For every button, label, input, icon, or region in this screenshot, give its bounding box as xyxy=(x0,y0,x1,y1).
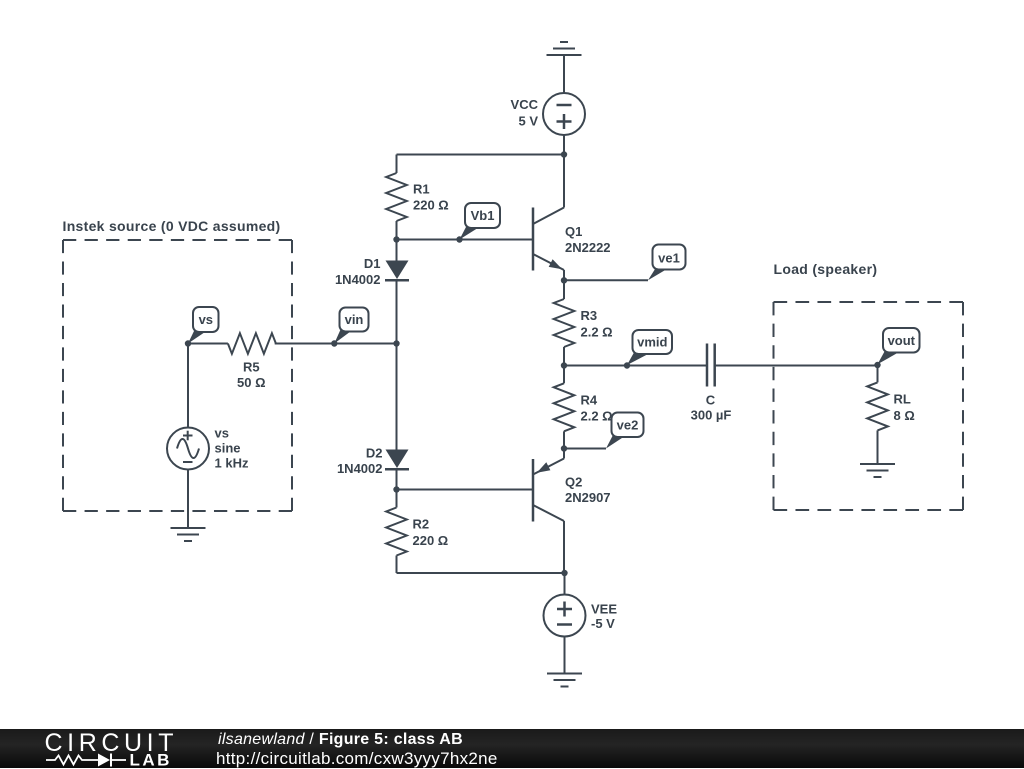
svg-text:300 µF: 300 µF xyxy=(691,407,732,422)
resistor R4 xyxy=(554,383,575,431)
svg-text:Instek source (0 VDC assumed): Instek source (0 VDC assumed) xyxy=(63,218,281,234)
svg-text:R5: R5 xyxy=(243,359,260,374)
junction D2/R2 xyxy=(393,486,399,492)
svg-text:vs: vs xyxy=(199,312,213,327)
svg-text:50 Ω: 50 Ω xyxy=(237,375,266,390)
wire ve2 xyxy=(564,448,606,450)
svg-text:1N4002: 1N4002 xyxy=(335,272,381,287)
wire Q2 base xyxy=(397,489,534,491)
capacitor C xyxy=(707,344,715,387)
svg-text:220 Ω: 220 Ω xyxy=(413,198,449,213)
svg-text:C: C xyxy=(706,393,716,408)
label R2 220 xyxy=(413,517,449,549)
wire node to VEE xyxy=(564,573,566,595)
svg-text:Q2: Q2 xyxy=(565,475,582,490)
diode D1 xyxy=(385,261,409,281)
wire Q2 collector xyxy=(563,521,565,573)
svg-text:RL: RL xyxy=(894,392,911,407)
label Q2 2N2907 xyxy=(565,475,611,506)
svg-text:220 Ω: 220 Ω xyxy=(413,533,449,548)
wire R2 to bottom rail xyxy=(396,556,398,574)
svg-text:-5 V: -5 V xyxy=(591,616,615,631)
node flag ve2 xyxy=(606,413,644,449)
node flag vout xyxy=(878,328,920,364)
svg-text:2N2907: 2N2907 xyxy=(565,490,611,505)
svg-text:vmid: vmid xyxy=(637,335,667,350)
svg-text:ve1: ve1 xyxy=(658,251,680,266)
svg-text:Q1: Q1 xyxy=(565,224,582,239)
svg-text:R4: R4 xyxy=(581,393,598,408)
svg-text:Vb1: Vb1 xyxy=(471,208,495,223)
wire ground to VCC xyxy=(563,55,565,94)
label D1 1N4002 xyxy=(335,256,381,287)
wire R4 top xyxy=(563,366,565,384)
label R3 2.2 xyxy=(581,308,613,339)
wire RL to ground xyxy=(877,430,879,464)
wire R5 to vin xyxy=(275,343,397,345)
footer title xyxy=(218,731,463,749)
label R4 2.2 xyxy=(581,393,613,424)
wire R4 to ve2 node xyxy=(563,431,565,448)
label C 300uF xyxy=(691,393,732,423)
wire Q1 collector xyxy=(563,155,565,208)
resistor R1 xyxy=(386,173,407,221)
wire R3 to vmid xyxy=(563,347,565,366)
wire node to R3 xyxy=(563,280,565,299)
voltage source vs sine xyxy=(167,428,209,470)
svg-text:LAB: LAB xyxy=(130,751,172,769)
svg-text:2N2222: 2N2222 xyxy=(565,240,611,255)
footer url xyxy=(216,749,498,769)
transistor Q1 2N2222 xyxy=(533,208,564,271)
svg-text:VCC: VCC xyxy=(511,97,539,112)
label R1 220 xyxy=(413,182,449,213)
label VEE -5V xyxy=(591,601,617,631)
wire vs to R5 xyxy=(188,343,228,345)
junction bottom node xyxy=(561,570,567,576)
wire vs source top xyxy=(187,344,189,428)
svg-text:1 kHz: 1 kHz xyxy=(215,456,249,471)
node flag Vb1 xyxy=(456,203,500,243)
wire top horizontal xyxy=(397,154,565,156)
label vs sine 1kHz xyxy=(215,426,249,471)
svg-text:2.2 Ω: 2.2 Ω xyxy=(581,409,613,424)
svg-text:R1: R1 xyxy=(413,182,430,197)
wire node to D1 xyxy=(396,240,398,261)
label VCC 5V xyxy=(511,97,539,129)
wire Q1 base xyxy=(397,239,534,241)
resistor R2 xyxy=(386,508,407,556)
svg-text:D2: D2 xyxy=(366,446,383,461)
label D2 1N4002 xyxy=(337,446,383,477)
wire ve1 xyxy=(564,279,648,281)
svg-text:vin: vin xyxy=(345,312,364,327)
CircuitLab logo xyxy=(0,728,220,768)
svg-text:sine: sine xyxy=(215,441,241,456)
ground vs xyxy=(171,528,206,541)
wire vin node to D2 xyxy=(396,344,398,450)
svg-text:R2: R2 xyxy=(413,517,430,532)
svg-text:1N4002: 1N4002 xyxy=(337,461,383,476)
dashed box Instek source xyxy=(63,240,292,511)
junction vin rail xyxy=(393,340,399,346)
label RL 8 xyxy=(894,392,915,424)
junction ve1 xyxy=(561,277,567,283)
wire bottom horizontal xyxy=(397,572,565,574)
wire node to R2 xyxy=(396,490,398,508)
svg-text:D1: D1 xyxy=(364,256,381,271)
diode D2 xyxy=(385,450,409,470)
svg-text:Load (speaker): Load (speaker) xyxy=(774,261,878,277)
svg-text:ve2: ve2 xyxy=(617,418,639,433)
resistor RL xyxy=(867,382,888,430)
wire Q2 emitter xyxy=(563,449,565,459)
wire vout to RL xyxy=(877,365,879,382)
resistor R5 xyxy=(228,333,276,354)
junction top node xyxy=(561,151,567,157)
wire D1 to vin node xyxy=(396,280,398,343)
footer bar xyxy=(0,729,1024,768)
node flag vin xyxy=(331,308,368,347)
svg-text:R3: R3 xyxy=(581,308,598,323)
wire Q1 emitter xyxy=(563,270,565,280)
svg-text:vs: vs xyxy=(215,426,229,441)
node flag vs xyxy=(185,307,219,347)
svg-text:VEE: VEE xyxy=(591,601,617,616)
node flag vmid xyxy=(624,330,672,369)
wire VEE to ground xyxy=(564,637,566,674)
ground top (VCC) xyxy=(547,42,582,55)
ground RL xyxy=(860,464,895,477)
wire VCC to node xyxy=(563,135,565,155)
dashed box Load speaker xyxy=(774,302,964,510)
wire D2 to node xyxy=(396,469,398,489)
svg-text:5 V: 5 V xyxy=(518,114,538,129)
wire capacitor to vout xyxy=(715,365,878,367)
voltage source VEE -5V xyxy=(544,595,586,637)
transistor Q2 2N2907 xyxy=(533,459,564,522)
resistor R3 xyxy=(554,299,575,347)
wire R1 to node Vb1 xyxy=(396,221,398,240)
junction vout xyxy=(874,362,880,368)
label Q1 2N2222 xyxy=(565,224,611,255)
node flag ve1 xyxy=(648,245,686,281)
junction vmid xyxy=(561,362,567,368)
wire vs source to ground xyxy=(187,470,189,529)
ground VEE xyxy=(547,674,582,687)
wire to R1 xyxy=(396,155,398,174)
svg-text:2.2 Ω: 2.2 Ω xyxy=(581,324,613,339)
wire vmid to capacitor xyxy=(564,365,707,367)
junction R1/D1 xyxy=(393,236,399,242)
junction ve2 xyxy=(561,445,567,451)
svg-text:vout: vout xyxy=(888,333,916,348)
svg-text:8 Ω: 8 Ω xyxy=(894,408,915,423)
voltage source VCC 5V xyxy=(543,93,585,135)
label R5 50 xyxy=(237,359,266,390)
